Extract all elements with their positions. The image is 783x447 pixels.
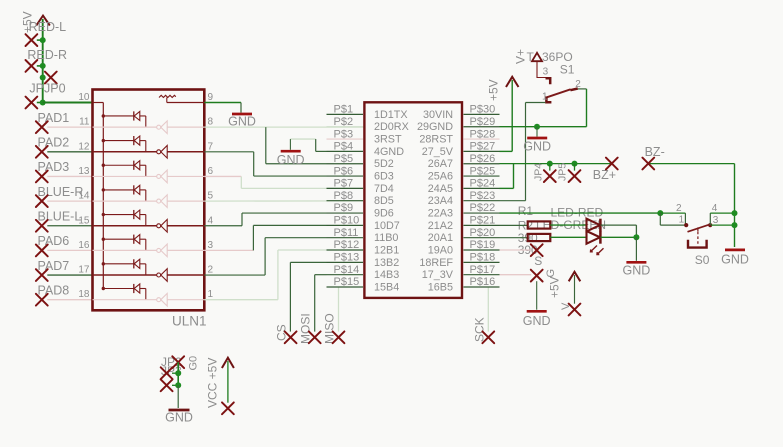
svg-text:P$11: P$11 xyxy=(334,227,359,239)
wire P$26 BZ+ rail xyxy=(500,163,612,165)
ULN driver 7 diode branch xyxy=(102,259,146,275)
ULN driver 8 output line xyxy=(167,299,204,301)
pin P$19 stub xyxy=(464,249,500,251)
svg-text:P$16: P$16 xyxy=(470,276,496,288)
supply +5V arrow near S1 xyxy=(506,77,519,87)
wire P$13 to CS pad xyxy=(290,261,326,263)
ULN pin 10 internal lead xyxy=(93,102,104,104)
junction dot JP0 xyxy=(40,100,46,106)
wire BLUE-L to ULN pin 15 xyxy=(47,225,92,227)
ULN com zigzag symbol xyxy=(159,95,176,102)
pad SCK xyxy=(482,331,494,343)
svg-text:P$7: P$7 xyxy=(334,178,354,190)
svg-text:22A3: 22A3 xyxy=(428,208,453,220)
LED light arrows xyxy=(591,246,604,255)
pad +5V xyxy=(569,304,581,316)
svg-text:PAD7: PAD7 xyxy=(38,259,70,273)
svg-text:P$26: P$26 xyxy=(470,153,496,165)
wire P$21 to R1 xyxy=(500,224,528,226)
pad JP mid xyxy=(161,367,173,379)
svg-text:7: 7 xyxy=(208,141,214,152)
wire ULN pin4 to P$9 xyxy=(204,225,242,227)
svg-text:PAD1: PAD1 xyxy=(38,111,70,125)
pin P$24 stub xyxy=(464,187,500,189)
junction dot GND stub on P$29 net xyxy=(534,124,540,130)
svg-text:7D4: 7D4 xyxy=(374,183,394,195)
wire P$15 to MISO pad xyxy=(338,287,340,332)
pin P$12 stub xyxy=(327,249,364,251)
ULN driver 1 input line xyxy=(93,126,157,128)
wire pad to GND xyxy=(536,281,538,310)
wire GND2 corner to P$4 xyxy=(315,139,317,151)
ULN driver 3 inverter xyxy=(157,170,168,183)
svg-text:P$28: P$28 xyxy=(470,128,496,140)
junction dot JP5 xyxy=(572,161,578,167)
svg-text:1: 1 xyxy=(208,289,214,300)
wire PAD6 to ULN pin 16 xyxy=(47,249,92,251)
wire PAD8 to ULN pin 18 xyxy=(47,299,92,301)
svg-text:11B0: 11B0 xyxy=(374,232,398,244)
pad CS xyxy=(285,331,297,343)
svg-text:6D3: 6D3 xyxy=(374,171,394,183)
svg-text:11: 11 xyxy=(79,117,90,128)
svg-text:V+: V+ xyxy=(514,49,528,64)
pin P$10 stub xyxy=(327,224,364,226)
pin P$8 stub xyxy=(327,200,364,202)
svg-text:GND: GND xyxy=(165,411,193,425)
svg-text:9: 9 xyxy=(208,92,214,103)
svg-text:1: 1 xyxy=(679,215,685,226)
svg-text:25A6: 25A6 xyxy=(428,171,453,183)
svg-text:G: G xyxy=(545,269,557,278)
junction dot LED GND xyxy=(633,234,639,240)
ULN driver 1 inverter xyxy=(157,121,168,134)
pad on P$19 xyxy=(531,244,543,256)
svg-text:P$24: P$24 xyxy=(470,178,496,190)
ULN driver 2 inverter xyxy=(157,146,168,159)
svg-text:2: 2 xyxy=(676,203,682,214)
svg-text:3: 3 xyxy=(713,215,719,226)
wire P$29 to S1 xyxy=(500,126,587,128)
svg-text:1D1TX: 1D1TX xyxy=(374,109,408,121)
ULN driver 7 inverter xyxy=(157,269,168,282)
junction dot S0 pin4 xyxy=(732,210,738,216)
wire VCC arrow to pad xyxy=(227,361,229,403)
svg-text:S: S xyxy=(534,254,542,268)
svg-text:17_3V: 17_3V xyxy=(422,269,454,281)
pad BZ- xyxy=(642,158,654,170)
svg-text:BLUE-R: BLUE-R xyxy=(38,185,84,199)
ULN driver 8 input line xyxy=(93,299,157,301)
ULN driver 6 output line xyxy=(167,249,204,251)
pad JP5 xyxy=(574,164,576,171)
svg-text:P$18: P$18 xyxy=(470,252,496,264)
pin P$18 stub xyxy=(464,261,500,263)
ULN driver 1 diode branch xyxy=(102,111,146,127)
wire ULN pin9 to GND xyxy=(204,102,241,104)
wire R2 to LED2 xyxy=(550,236,586,238)
svg-text:P$9: P$9 xyxy=(334,202,354,214)
ULN driver 6 input line xyxy=(93,249,157,251)
pin P$7 stub xyxy=(327,187,364,189)
pin P$9 stub xyxy=(327,212,364,214)
svg-text:12B1: 12B1 xyxy=(374,245,399,257)
switch S1 pin1 stub xyxy=(546,96,551,102)
pin P$3 stub xyxy=(327,138,364,140)
svg-text:+5V: +5V xyxy=(548,276,562,298)
svg-text:P$30: P$30 xyxy=(470,104,496,116)
svg-text:P$27: P$27 xyxy=(470,141,496,153)
IC U1 box xyxy=(364,102,462,298)
svg-text:13: 13 xyxy=(78,166,90,177)
wire +5V arrow to pad xyxy=(574,275,576,304)
ULN driver 2 diode branch xyxy=(102,136,146,152)
pin P$13 stub xyxy=(327,261,364,263)
wire ULN pin5 to P$8 xyxy=(204,200,364,202)
pad right of chain xyxy=(45,72,57,84)
svg-text:+5V: +5V xyxy=(487,79,501,101)
svg-text:P$23: P$23 xyxy=(470,190,496,202)
pin P$11 stub xyxy=(327,237,364,239)
wire P$14 to MOSI pad xyxy=(315,274,327,276)
svg-text:20A1: 20A1 xyxy=(428,232,453,244)
pin P$15 stub xyxy=(327,286,364,288)
svg-text:5: 5 xyxy=(208,191,214,202)
svg-text:27_5V: 27_5V xyxy=(422,146,454,158)
svg-text:16B5: 16B5 xyxy=(428,282,453,294)
ground GND below LEDs xyxy=(635,237,637,260)
pad RED-R xyxy=(26,60,38,72)
svg-text:GND: GND xyxy=(228,114,256,128)
ULN driver 7 input line xyxy=(93,274,157,276)
wire BZ- to S0 rail xyxy=(648,163,734,165)
wire S1 pin1 to P$23 xyxy=(526,102,546,104)
svg-text:VCC +5V: VCC +5V xyxy=(206,358,220,408)
svg-text:P$12: P$12 xyxy=(334,239,360,251)
pin P$4 stub xyxy=(327,150,364,152)
wire P$3 ghost to GND2 xyxy=(290,138,315,140)
wire PAD1 to ULN pin 11 xyxy=(47,126,92,128)
ULN driver 5 output line xyxy=(167,225,204,227)
ULN driver 5 input line xyxy=(93,225,157,227)
svg-text:P$8: P$8 xyxy=(334,190,354,202)
wire ULN pin8 to P$2 / P$5 net xyxy=(204,126,364,128)
svg-text:4: 4 xyxy=(208,215,214,226)
svg-text:SCK: SCK xyxy=(473,317,487,342)
ULN driver 2 input line xyxy=(93,151,157,153)
svg-text:GND: GND xyxy=(277,153,305,167)
pad RED-L xyxy=(26,34,38,46)
pin P$16 stub xyxy=(464,286,500,288)
svg-text:G0: G0 xyxy=(188,356,200,371)
wire P$17 to pad xyxy=(500,274,532,276)
svg-text:P$20: P$20 xyxy=(470,227,496,239)
svg-text:P$22: P$22 xyxy=(470,202,496,214)
svg-text:3: 3 xyxy=(208,240,214,251)
svg-text:GND: GND xyxy=(523,314,551,328)
wire BLUE-R to ULN pin 14 xyxy=(47,200,92,202)
pad PAD3 xyxy=(36,171,48,183)
svg-text:BLUE-L: BLUE-L xyxy=(38,209,82,223)
pad JP4 xyxy=(549,164,551,171)
pin P$29 stub xyxy=(464,126,500,128)
wire JP chain xyxy=(177,362,179,385)
svg-text:4GND: 4GND xyxy=(374,146,404,158)
svg-text:2D0RX: 2D0RX xyxy=(374,121,409,133)
svg-text:10D7: 10D7 xyxy=(374,220,400,232)
switch S0 plunger dashed xyxy=(697,232,699,244)
svg-text:14B3: 14B3 xyxy=(374,269,399,281)
wire JP0 to ULN pin 10 xyxy=(43,102,93,104)
svg-text:19A0: 19A0 xyxy=(428,245,453,257)
switch S0 right link xyxy=(709,213,711,225)
svg-text:S1: S1 xyxy=(560,63,575,77)
svg-text:10: 10 xyxy=(78,92,90,103)
junction dot S0 left xyxy=(657,210,663,216)
svg-text:P$21: P$21 xyxy=(470,215,496,227)
resistor R2 xyxy=(528,234,551,241)
ULN common rail xyxy=(102,103,104,289)
pad JP top xyxy=(172,356,184,368)
pad on P$17 xyxy=(531,270,543,282)
svg-text:15: 15 xyxy=(78,215,90,226)
wire R1 to LED1 xyxy=(550,224,586,226)
pin P$26 stub xyxy=(464,163,500,165)
pad PAD1 xyxy=(36,121,48,133)
switch S0 pin3 contact xyxy=(708,223,712,227)
svg-text:PAD8: PAD8 xyxy=(38,283,70,297)
svg-text:S0: S0 xyxy=(695,253,710,267)
svg-text:21A2: 21A2 xyxy=(428,220,453,232)
svg-text:30VIN: 30VIN xyxy=(423,109,453,121)
ULN driver 3 input line xyxy=(93,175,157,177)
pin P$20 stub xyxy=(464,237,500,239)
svg-text:6: 6 xyxy=(208,166,214,177)
resistor R1 xyxy=(528,221,551,228)
ULN driver 1 output line xyxy=(167,126,204,128)
svg-text:8: 8 xyxy=(208,117,214,128)
switch S0 lever xyxy=(688,224,711,232)
svg-text:8D5: 8D5 xyxy=(374,195,394,207)
svg-text:3RST: 3RST xyxy=(374,134,402,146)
IC ULN1 box xyxy=(93,90,205,311)
svg-text:GND: GND xyxy=(721,253,749,267)
LED1 LED-RED xyxy=(587,219,601,232)
svg-text:MOSI: MOSI xyxy=(299,313,313,344)
ground GND right of S0 xyxy=(725,249,745,252)
svg-text:12: 12 xyxy=(78,141,90,152)
wire ULN pin7 to P$6 xyxy=(204,151,253,153)
ULN driver 8 inverter xyxy=(157,293,168,306)
wire ULN pin3 to P$10 xyxy=(204,249,253,251)
svg-text:P$14: P$14 xyxy=(334,264,360,276)
ULN driver 4 input line xyxy=(93,200,157,202)
pin P$5 stub xyxy=(327,163,364,165)
pad JP bottom xyxy=(161,379,173,391)
wire P$19 to pad xyxy=(500,249,532,251)
pad PAD6 xyxy=(36,245,48,257)
ULN pin 9 internal lead xyxy=(167,102,205,104)
svg-text:P$15: P$15 xyxy=(334,276,360,288)
pin P$25 stub xyxy=(464,175,500,177)
svg-text:9D6: 9D6 xyxy=(374,208,394,220)
pin P$30 stub xyxy=(464,113,500,115)
wire loop S0 pins 1-2 xyxy=(660,212,685,214)
ground GND below S pad xyxy=(527,310,547,313)
svg-text:P$2: P$2 xyxy=(334,116,354,128)
supply +5V arrow top-left xyxy=(36,16,50,26)
svg-text:P$6: P$6 xyxy=(334,165,354,177)
pin P$6 stub xyxy=(327,175,364,177)
pad MOSI xyxy=(309,331,321,343)
pin P$14 stub xyxy=(327,274,364,276)
wire branch to P$5 xyxy=(265,127,267,164)
svg-text:14: 14 xyxy=(78,191,90,202)
junction dot RED-R xyxy=(40,63,46,69)
wire PAD7 to ULN pin 17 xyxy=(47,274,92,276)
wire ULN pin6 to P$7 xyxy=(204,175,241,177)
pin P$27 stub xyxy=(464,150,500,152)
ULN driver 6 diode branch xyxy=(102,235,146,251)
pad MISO xyxy=(333,331,345,343)
svg-text:1: 1 xyxy=(542,92,548,103)
svg-text:BZ+: BZ+ xyxy=(593,168,616,182)
svg-text:PAD2: PAD2 xyxy=(38,136,70,150)
supply V+ triangle xyxy=(532,53,542,61)
svg-text:P$4: P$4 xyxy=(334,141,354,153)
svg-text:P$3: P$3 xyxy=(334,128,354,140)
wire P$27 to +5V xyxy=(511,80,513,151)
pin P$2 stub xyxy=(327,126,364,128)
svg-text:15B4: 15B4 xyxy=(374,282,399,294)
svg-text:18REF: 18REF xyxy=(419,257,453,269)
svg-text:26A7: 26A7 xyxy=(428,158,453,170)
ULN driver 4 inverter xyxy=(157,195,168,208)
ground GND near P$4 xyxy=(289,139,291,150)
svg-text:3: 3 xyxy=(543,67,549,78)
supply +5V arrow bottom xyxy=(222,358,234,368)
switch S1 pin3 stub xyxy=(546,78,551,84)
ULN driver 4 diode branch xyxy=(102,185,146,201)
svg-text:JP4: JP4 xyxy=(533,163,545,181)
wire S0 pin3 to rail xyxy=(711,224,735,226)
wire BZ rail down to GND xyxy=(734,164,736,247)
pad BLUE-R xyxy=(36,195,48,207)
ground GND bottom-left xyxy=(169,409,190,412)
svg-text:RED-R: RED-R xyxy=(27,48,67,62)
switch S0 pin1 contact xyxy=(684,223,688,227)
wire S0 pin4 to rail xyxy=(710,212,734,214)
ULN driver 6 inverter xyxy=(157,244,168,257)
wire PAD2 to ULN pin 12 xyxy=(47,151,92,153)
wire ULN pin2 to P$11 xyxy=(204,274,265,276)
pin P$17 stub xyxy=(464,274,500,276)
switch S0 actuator xyxy=(688,240,707,248)
wire +5V chain vertical xyxy=(42,19,44,103)
LED2 LED-GREEN xyxy=(587,231,601,244)
svg-text:P$5: P$5 xyxy=(334,153,354,165)
junction dot JP4 xyxy=(547,161,553,167)
junction dot JP mid xyxy=(175,370,181,376)
pad PAD7 xyxy=(36,269,48,281)
svg-text:GND: GND xyxy=(623,264,651,278)
wire P$20 to R2 xyxy=(500,237,528,239)
wire ULN pin1 to P$12 xyxy=(204,299,278,301)
ULN driver 8 diode branch xyxy=(102,284,146,300)
ULN driver 2 output line xyxy=(167,151,204,153)
ULN driver 3 diode branch xyxy=(102,161,146,177)
svg-text:24A5: 24A5 xyxy=(428,183,453,195)
ULN driver 5 diode branch xyxy=(102,210,146,226)
ground GND below S1 xyxy=(536,127,538,137)
svg-text:P$13: P$13 xyxy=(334,252,360,264)
junction dot S0 pin3 xyxy=(732,222,738,228)
svg-text:JP5: JP5 xyxy=(557,163,569,181)
svg-text:PAD6: PAD6 xyxy=(38,234,70,248)
ULN driver 3 output line xyxy=(167,175,204,177)
switch S1 pin2 stub xyxy=(570,89,577,91)
svg-text:RED-L: RED-L xyxy=(29,20,67,34)
pin P$1 stub xyxy=(327,113,364,115)
pad PAD2 xyxy=(36,146,48,158)
pad PAD8 xyxy=(36,294,48,306)
svg-text:GND: GND xyxy=(523,140,551,154)
svg-text:13B2: 13B2 xyxy=(374,257,399,269)
supply +5V arrow small xyxy=(569,272,581,282)
pin P$23 stub xyxy=(464,200,500,202)
svg-text:PAD3: PAD3 xyxy=(38,160,70,174)
pad VCC xyxy=(222,402,234,414)
svg-text:P$1: P$1 xyxy=(334,104,354,116)
svg-text:P$25: P$25 xyxy=(470,165,496,177)
svg-text:23A4: 23A4 xyxy=(428,195,453,207)
ground GND near ULN pin 9 xyxy=(232,113,252,116)
wire LED2 cathode xyxy=(601,236,637,238)
wire PAD3 to ULN pin 13 xyxy=(47,175,92,177)
svg-text:18: 18 xyxy=(78,289,90,300)
pin P$22 stub xyxy=(464,212,500,214)
svg-text:P$29: P$29 xyxy=(470,116,496,128)
svg-text:29GND: 29GND xyxy=(417,121,453,133)
wire P$16 to SCK pad xyxy=(487,287,489,332)
svg-text:ULN1: ULN1 xyxy=(172,313,207,328)
wire JP to GND xyxy=(177,385,179,408)
pin P$28 stub xyxy=(464,138,500,140)
wire S1 pin2 down to P$29 xyxy=(578,88,587,90)
junction dot RED-L xyxy=(40,37,46,43)
pin P$21 stub xyxy=(464,224,500,226)
wire branch to P$24 xyxy=(513,164,515,189)
wire V+ to S1 pin3 xyxy=(537,62,549,78)
pad JP0 xyxy=(26,97,38,109)
svg-text:16: 16 xyxy=(78,240,90,251)
pad BZ+ xyxy=(606,158,618,170)
ULN driver 5 inverter xyxy=(157,219,168,232)
junction dot JP bottom xyxy=(175,382,181,388)
svg-text:JPJP0: JPJP0 xyxy=(29,81,65,95)
svg-text:P$17: P$17 xyxy=(470,264,496,276)
svg-text:28RST: 28RST xyxy=(419,134,453,146)
svg-text:5D2: 5D2 xyxy=(374,158,394,170)
wire P$22 to S0 xyxy=(500,212,661,214)
ULN driver 4 output line xyxy=(167,200,204,202)
svg-text:P$19: P$19 xyxy=(470,239,496,251)
switch S1 lever xyxy=(547,89,570,97)
svg-text:MISO: MISO xyxy=(323,313,337,344)
svg-text:17: 17 xyxy=(78,265,90,276)
pad BLUE-L xyxy=(36,220,48,232)
ULN driver 7 output line xyxy=(167,274,204,276)
